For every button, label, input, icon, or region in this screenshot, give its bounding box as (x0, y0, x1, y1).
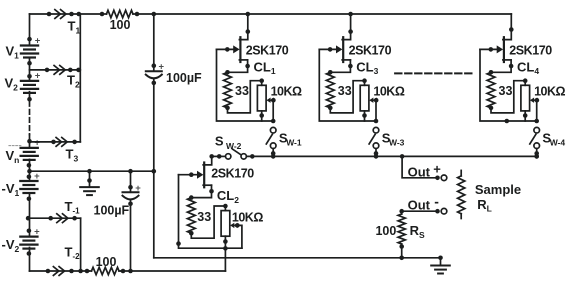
svg-text:+: + (34, 171, 40, 182)
connector T3 (56, 138, 78, 164)
wire dashed continuation (more cells) (395, 72, 472, 74)
svg-text:2SK170: 2SK170 (509, 44, 552, 58)
resistor 33 (CL3) (326, 72, 351, 110)
svg-text:W-4: W-4 (550, 137, 566, 147)
svg-text:Sample: Sample (475, 182, 521, 197)
wire bottom negative bus (30, 269, 226, 274)
svg-text:+: + (35, 35, 41, 46)
connector T2 (54, 66, 80, 90)
wire left battery bus (29, 14, 31, 271)
svg-text:+: + (35, 71, 41, 82)
resistor 100 (top rail) (100, 10, 140, 32)
battery -V2 (2, 226, 41, 255)
resistor 33 (CL2) (187, 198, 211, 236)
switch SW-4 (530, 127, 566, 158)
transistor U3 2SK170 JFET (319, 37, 391, 62)
battery Vn (6, 138, 41, 168)
svg-text:2SK170: 2SK170 (349, 44, 392, 58)
wire T3 row (30, 140, 81, 145)
switch SW-2 (215, 134, 247, 159)
battery V1 (6, 35, 41, 65)
battery -V1 (2, 171, 41, 201)
node: top-rail junction dots (47, 12, 156, 17)
svg-text:33: 33 (235, 84, 249, 98)
ground (right) (431, 255, 450, 273)
node SW-4 bus corner (534, 154, 539, 159)
capacitor 100uF (lower) (94, 183, 142, 217)
svg-text:10KΩ: 10KΩ (373, 85, 404, 99)
connector T-1 (57, 199, 80, 223)
resistor 100 (bottom bus) (87, 255, 133, 274)
connector T1 (55, 10, 81, 36)
wire bottom ground bus (154, 257, 441, 259)
wire 33 bottom to 10K top CL2 (191, 204, 227, 239)
wire gate feedback loop CL1 (217, 49, 276, 123)
switch SW-1 (266, 127, 302, 158)
wire 33 bottom to 10K top CL4 (491, 78, 528, 113)
wire source to node CL4 (489, 59, 540, 76)
wire T bus vertical (79, 14, 81, 142)
wire source to node CL1 (225, 59, 276, 76)
svg-text:2SK170: 2SK170 (211, 166, 254, 180)
wire drain of 2SK170 CL4 (503, 14, 514, 40)
wire 33 bottom to 10K top CL3 (330, 78, 367, 113)
capacitor 100uF (upper) (146, 62, 202, 86)
wire drain of 2SK170 CL3 (342, 12, 353, 40)
svg-text:W-1: W-1 (286, 137, 302, 147)
transistor U2 2SK170 JFET (179, 163, 255, 188)
svg-text:+: + (433, 162, 441, 177)
resistor 10K trimmer (CL1) (257, 81, 302, 121)
svg-text:33: 33 (499, 84, 513, 98)
transistor U1 2SK170 JFET (217, 37, 289, 62)
wire gate feedback loop CL2 (176, 175, 242, 249)
wire Out+ (400, 154, 440, 180)
svg-text:100: 100 (96, 255, 117, 269)
svg-text:100: 100 (375, 224, 396, 238)
wire source to node CL2 (189, 185, 239, 205)
svg-text:10KΩ: 10KΩ (534, 85, 565, 99)
wire 33 bottom to 10K top CL1 (228, 78, 265, 113)
resistor RL sample load (458, 170, 522, 218)
svg-text:2SK170: 2SK170 (246, 44, 289, 58)
svg-text:Out: Out (408, 198, 431, 213)
svg-text:+: + (34, 226, 40, 237)
wire dashed battery continuation (29, 102, 31, 135)
resistor 33 (CL1) (224, 72, 249, 110)
svg-text:W-3: W-3 (389, 137, 405, 147)
ground (left) (80, 169, 99, 195)
resistor 10K trimmer (CL3) (360, 81, 405, 121)
resistor 10K trimmer (CL4) (521, 81, 566, 121)
switch SW-3 (369, 127, 405, 158)
wire T-1 row (26, 216, 81, 271)
svg-text:10KΩ: 10KΩ (232, 210, 263, 224)
svg-text:100µF: 100µF (94, 203, 130, 217)
svg-text:100µF: 100µF (166, 71, 202, 85)
wire Out- (399, 209, 439, 214)
svg-text:100: 100 (110, 18, 131, 32)
connector T-2 (53, 245, 80, 276)
resistor 10K trimmer (CL2) (221, 206, 263, 271)
battery V2 (5, 71, 41, 102)
wire top positive rail (30, 13, 512, 15)
wire source to node CL3 (328, 59, 379, 76)
svg-text:S: S (215, 134, 224, 149)
wire gate feedback loop CL3 (319, 49, 378, 123)
resistor Rs 100 (375, 211, 425, 260)
wire T2 row (30, 68, 81, 73)
wire gate feedback loop CL4 (480, 49, 539, 123)
wire ground row (Vn tap) (27, 169, 156, 174)
wire drain of 2SK170 CL2 (203, 154, 214, 165)
resistor 33 (CL4) (487, 72, 512, 110)
svg-text:33: 33 (197, 210, 211, 224)
wire cap1 vertical bus (153, 14, 155, 258)
wire switch output bus (212, 154, 537, 159)
transistor U4 2SK170 JFET (480, 37, 552, 62)
svg-text:W-2: W-2 (226, 141, 242, 151)
svg-text:-: - (434, 194, 439, 210)
svg-text:Out: Out (408, 164, 431, 179)
terminal Out- (408, 194, 447, 215)
wire drain of 2SK170 CL1 (239, 12, 250, 40)
svg-text:+: + (34, 138, 40, 149)
wire cap2 lead (130, 171, 132, 271)
svg-text:33: 33 (338, 84, 352, 98)
svg-text:10KΩ: 10KΩ (271, 85, 302, 99)
terminal Out+ (408, 162, 447, 181)
